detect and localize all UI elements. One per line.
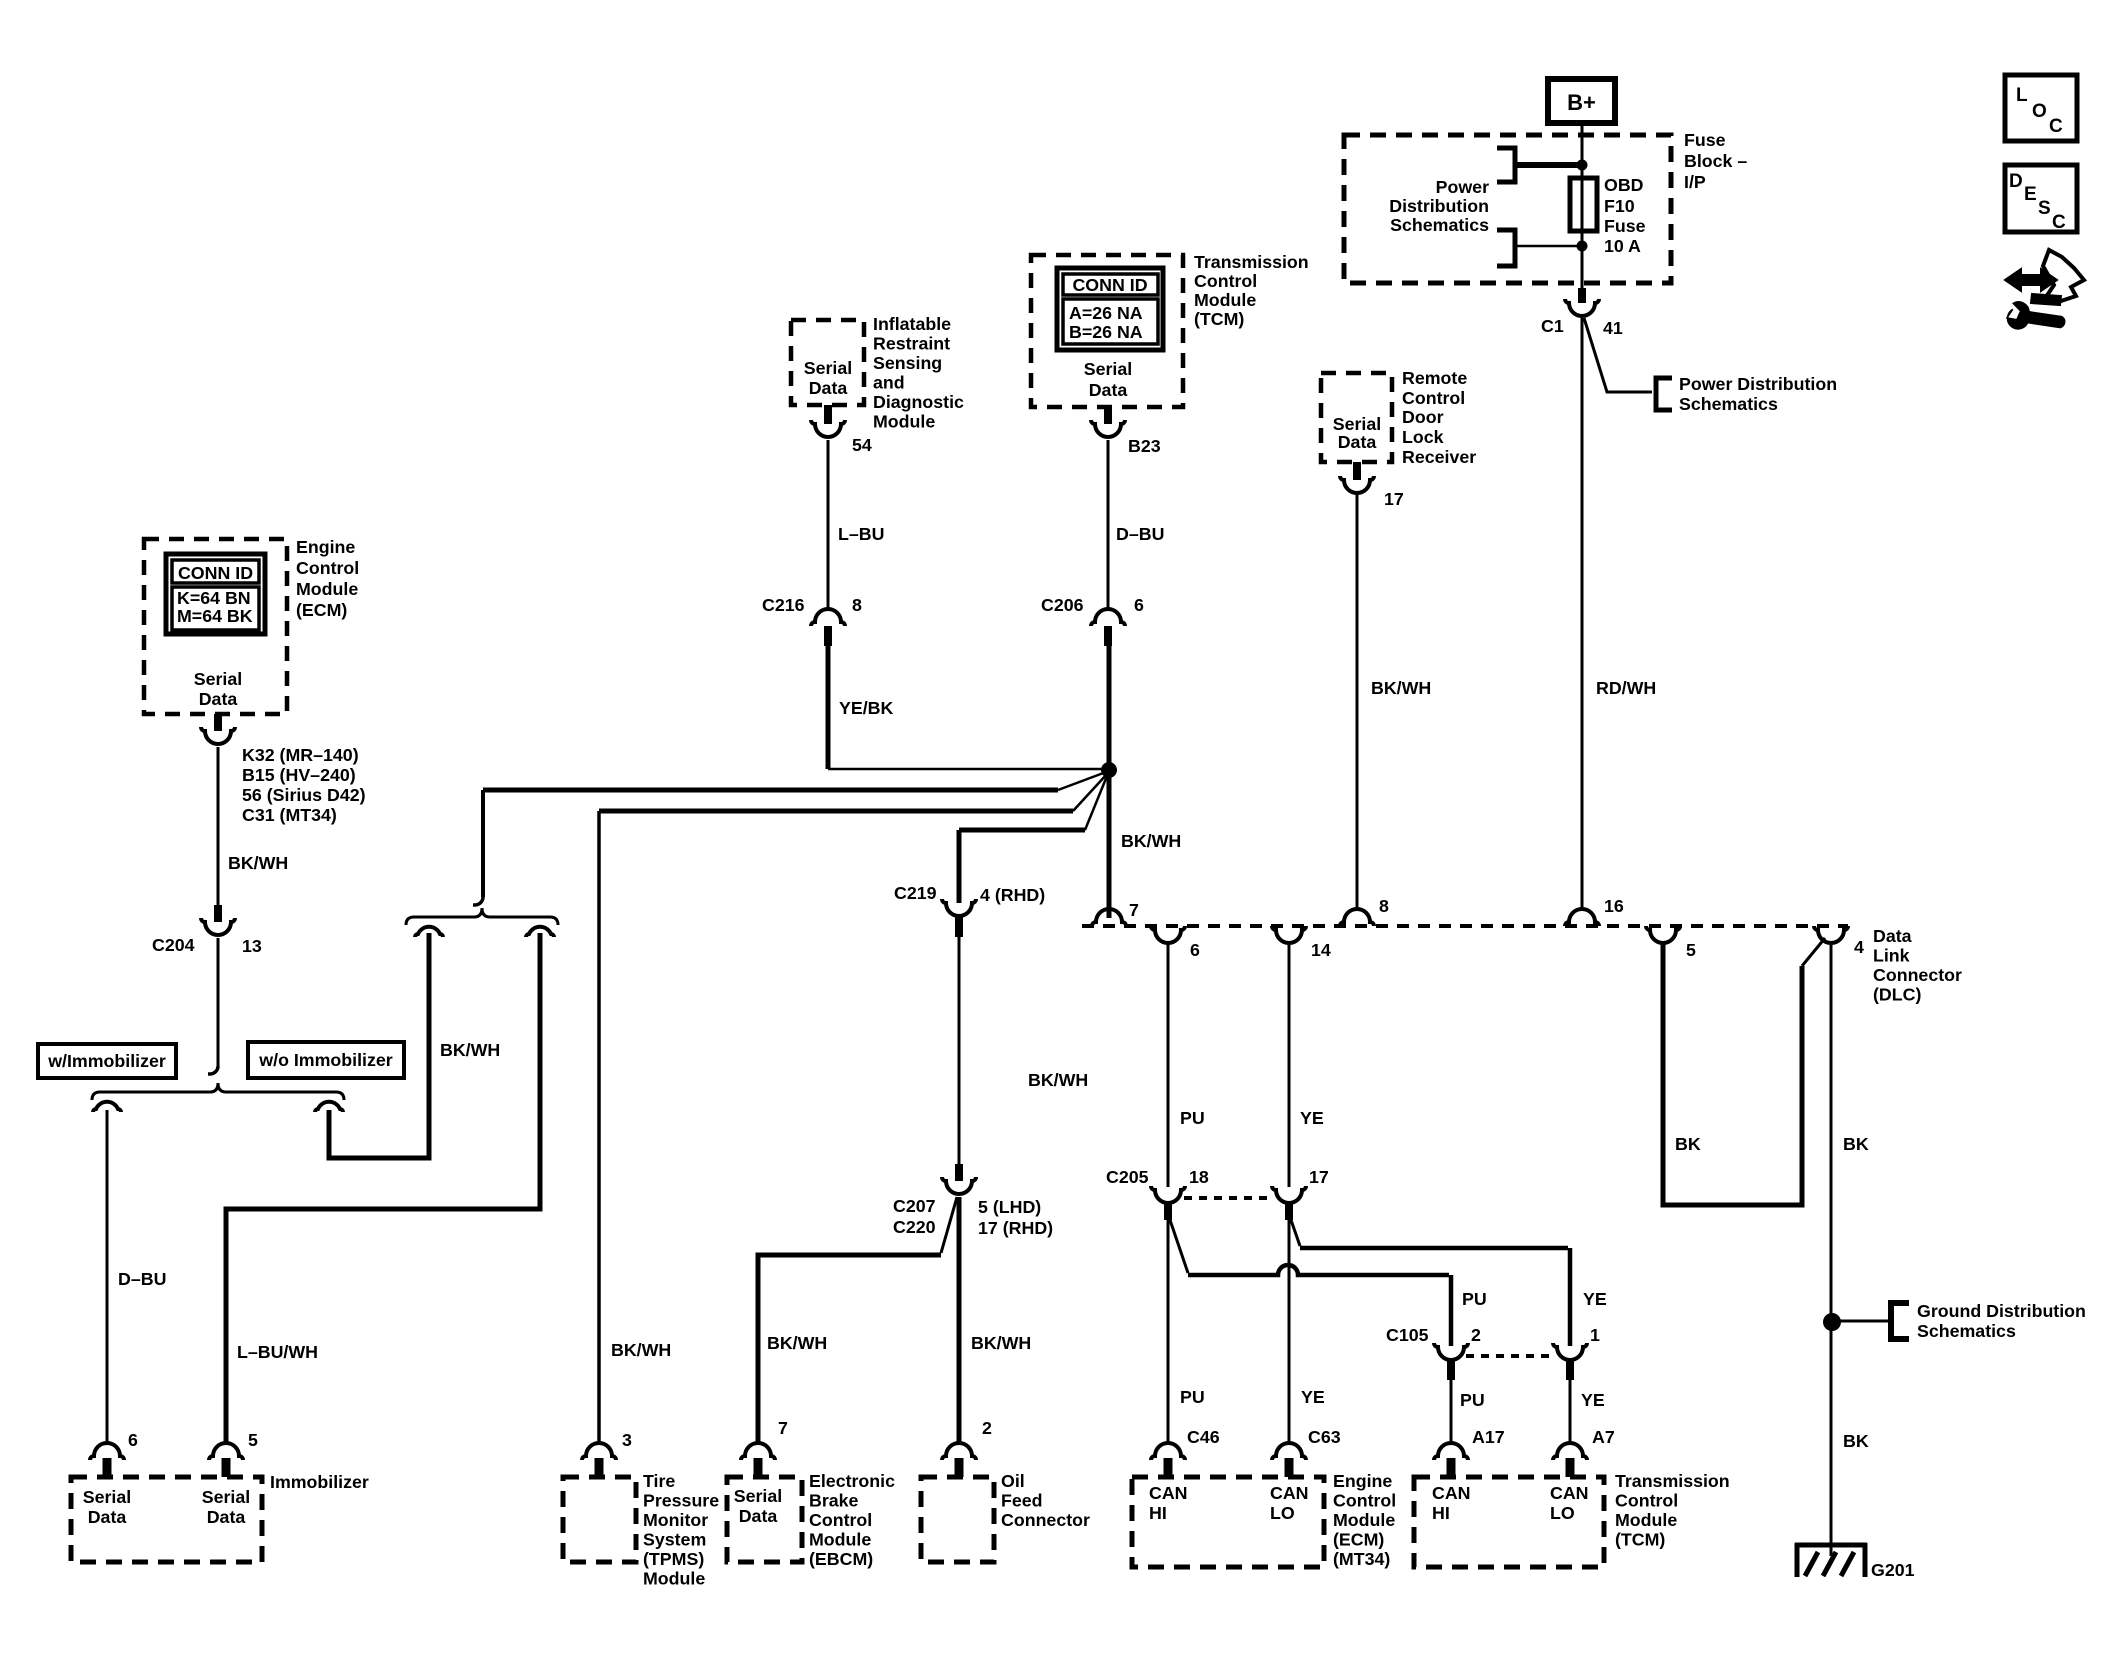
svg-text:Module: Module xyxy=(1333,1510,1395,1530)
wire: branch to C219 xyxy=(959,828,1085,833)
wire: ECM serial data BK/WH xyxy=(217,747,220,905)
svg-text:Distribution: Distribution xyxy=(1389,196,1489,216)
svg-text:Data: Data xyxy=(809,378,848,398)
wire: BK/WH down to C207 xyxy=(958,937,961,1164)
svg-text:(TPMS): (TPMS) xyxy=(643,1549,704,1569)
svg-text:Data: Data xyxy=(88,1507,127,1527)
svg-text:BK: BK xyxy=(1675,1134,1701,1154)
svg-text:BK/WH: BK/WH xyxy=(1371,678,1431,698)
svg-text:Connector: Connector xyxy=(1001,1510,1090,1530)
svg-text:10 A: 10 A xyxy=(1604,236,1641,256)
battery feed B+ terminal xyxy=(1548,79,1615,123)
fan wire to branch 4 xyxy=(1085,776,1107,830)
svg-text:Transmission: Transmission xyxy=(1615,1471,1730,1491)
connector C205 pin 18 xyxy=(1151,1186,1185,1203)
svg-text:PU: PU xyxy=(1460,1390,1485,1410)
TCM CAN pin A7 xyxy=(1553,1443,1587,1460)
LOC legend box xyxy=(2005,75,2077,141)
wire: RD/WH to DLC pin 16 xyxy=(1581,318,1584,911)
TPMS pin 3 xyxy=(582,1443,616,1460)
wire: BK/WH to oil feed connector pin 2 xyxy=(957,1197,962,1444)
svg-text:C219: C219 xyxy=(894,883,937,903)
wire: BK/WH trunk to DLC pin 7 xyxy=(1107,646,1112,918)
svg-text:Transmission: Transmission xyxy=(1194,252,1309,272)
svg-text:Monitor: Monitor xyxy=(643,1510,708,1530)
svg-text:Pressure: Pressure xyxy=(643,1491,719,1511)
svg-text:5: 5 xyxy=(248,1430,258,1450)
fan wire to branch 3 xyxy=(1073,774,1107,811)
wire: YE/BK horizontal xyxy=(828,768,1107,771)
breakout cup right xyxy=(315,1102,343,1112)
wire: YE crossover to C105 pin 1 xyxy=(1291,1220,1300,1246)
wire: fuse output xyxy=(1581,246,1584,288)
svg-text:D–BU: D–BU xyxy=(118,1269,166,1289)
svg-text:Data: Data xyxy=(199,689,238,709)
svg-text:7: 7 xyxy=(1129,900,1139,920)
svg-text:B=26 NA: B=26 NA xyxy=(1069,322,1143,342)
svg-text:Brake: Brake xyxy=(809,1491,859,1511)
svg-text:CAN: CAN xyxy=(1550,1483,1589,1503)
connector C1 pin 41 xyxy=(1578,288,1586,303)
svg-text:LO: LO xyxy=(1550,1503,1575,1523)
svg-text:Fuse: Fuse xyxy=(1604,216,1646,236)
svg-text:B23: B23 xyxy=(1128,436,1161,456)
svg-text:BK/WH: BK/WH xyxy=(971,1333,1031,1353)
svg-text:Module: Module xyxy=(873,412,935,432)
svg-text:L: L xyxy=(2016,85,2028,106)
wire: BK ground drop from DLC pin 4 xyxy=(1830,943,1833,1556)
DLC pin 14 cup xyxy=(1272,926,1306,943)
module box: Engine Control Module (ECM)(MT34), dashed xyxy=(1132,1477,1324,1567)
connector C105 pin 2 xyxy=(1434,1343,1468,1360)
svg-text:(ECM): (ECM) xyxy=(1333,1530,1384,1550)
option box: w/Immobilizer xyxy=(38,1044,176,1078)
connector C105 pin 1 xyxy=(1553,1343,1587,1360)
svg-text:Electronic: Electronic xyxy=(809,1471,895,1491)
svg-text:YE: YE xyxy=(1581,1390,1605,1410)
svg-text:(EBCM): (EBCM) xyxy=(809,1549,873,1569)
svg-text:Serial: Serial xyxy=(83,1487,131,1507)
svg-text:Control: Control xyxy=(1333,1491,1396,1511)
ECM output connector cup xyxy=(201,727,235,744)
wire: L-BU/WH to immobilizer pin 5 xyxy=(226,933,540,1444)
svg-text:2: 2 xyxy=(982,1418,992,1438)
svg-text:16: 16 xyxy=(1604,896,1624,916)
svg-text:BK/WH: BK/WH xyxy=(1121,831,1181,851)
connector C205 pin 17 xyxy=(1272,1186,1306,1203)
svg-text:5: 5 xyxy=(1686,940,1696,960)
svg-text:O: O xyxy=(2032,101,2047,122)
svg-text:13: 13 xyxy=(242,936,262,956)
DLC pin 4 cup xyxy=(1814,926,1848,943)
svg-text:54: 54 xyxy=(852,435,872,455)
svg-text:and: and xyxy=(873,373,905,393)
svg-text:Schematics: Schematics xyxy=(1917,1321,2016,1341)
fuse block dashed box: Fuse Block - I/P xyxy=(1344,135,1671,283)
svg-text:Module: Module xyxy=(643,1569,705,1589)
junction dot upper xyxy=(1577,160,1588,171)
svg-text:Remote: Remote xyxy=(1402,368,1467,388)
ECM CONN ID table xyxy=(166,554,265,634)
svg-text:RD/WH: RD/WH xyxy=(1596,678,1656,698)
wire: branch to splice brace 2 xyxy=(483,788,1058,793)
svg-text:6: 6 xyxy=(1190,940,1200,960)
svg-text:E: E xyxy=(2024,184,2037,205)
module box: Oil Feed Connector, dashed xyxy=(921,1477,994,1562)
svg-text:Sensing: Sensing xyxy=(873,353,942,373)
DLC pin 6 cup xyxy=(1151,926,1185,943)
DLC pin 7 dome xyxy=(1092,909,1126,926)
wire: branch to TPMS BK/WH xyxy=(599,809,1073,814)
wire: BK/WH branch to EBCM pin 7 xyxy=(941,1197,957,1253)
svg-text:(ECM): (ECM) xyxy=(296,600,347,620)
svg-text:Power: Power xyxy=(1436,177,1489,197)
svg-text:Block –: Block – xyxy=(1684,151,1747,171)
svg-text:6: 6 xyxy=(1134,595,1144,615)
connector C204 pin 13 xyxy=(214,905,222,922)
svg-text:M=64 BK: M=64 BK xyxy=(177,606,253,626)
svg-text:PU: PU xyxy=(1180,1108,1205,1128)
svg-text:B+: B+ xyxy=(1567,90,1596,115)
wire: PU to TCM CAN HI A17 xyxy=(1450,1380,1453,1444)
svg-text:w/o Immobilizer: w/o Immobilizer xyxy=(258,1050,392,1070)
svg-text:Data: Data xyxy=(1089,380,1128,400)
wire: B+ to fuse xyxy=(1581,123,1584,178)
svg-text:Control: Control xyxy=(809,1510,872,1530)
svg-text:Fuse: Fuse xyxy=(1684,130,1726,150)
svg-text:Feed: Feed xyxy=(1001,1491,1043,1511)
svg-text:(DLC): (DLC) xyxy=(1873,985,1921,1005)
EBCM pin 7 xyxy=(741,1443,775,1460)
svg-text:56 (Sirius D42): 56 (Sirius D42) xyxy=(242,785,366,805)
module box: EBCM, dashed xyxy=(727,1477,802,1562)
oil feed pin 2 xyxy=(942,1443,976,1460)
svg-text:Serial: Serial xyxy=(1084,359,1132,379)
svg-text:18: 18 xyxy=(1189,1167,1209,1187)
svg-text:Data: Data xyxy=(1338,432,1377,452)
module box: TPMS Module, dashed xyxy=(563,1477,636,1562)
svg-text:Connector: Connector xyxy=(1873,965,1962,985)
svg-text:S: S xyxy=(2038,198,2051,219)
svg-text:8: 8 xyxy=(852,595,862,615)
swap-wrench icon xyxy=(2005,269,2057,291)
svg-text:C205: C205 xyxy=(1106,1167,1149,1187)
svg-text:w/Immobilizer: w/Immobilizer xyxy=(47,1051,166,1071)
breakout cup left xyxy=(93,1102,121,1112)
svg-text:Lock: Lock xyxy=(1402,427,1444,447)
svg-text:YE/BK: YE/BK xyxy=(839,698,894,718)
svg-text:Control: Control xyxy=(1194,271,1257,291)
svg-text:Schematics: Schematics xyxy=(1390,215,1489,235)
svg-text:B15 (HV–240): B15 (HV–240) xyxy=(242,765,356,785)
svg-text:Tire: Tire xyxy=(643,1471,675,1491)
wire: tap to power distribution schematics xyxy=(1584,318,1652,392)
wire: YE to TCM CAN LO A7 xyxy=(1569,1380,1572,1444)
svg-text:C: C xyxy=(2049,116,2063,137)
svg-text:CAN: CAN xyxy=(1149,1483,1188,1503)
svg-text:4: 4 xyxy=(1854,937,1864,957)
TCM CAN pin A17 xyxy=(1434,1443,1468,1460)
svg-text:Module: Module xyxy=(1194,290,1256,310)
connector pin 17 xyxy=(1353,462,1361,480)
svg-text:Module: Module xyxy=(296,579,358,599)
svg-text:BK: BK xyxy=(1843,1134,1869,1154)
wire: DLC internal bus, dashed xyxy=(1082,924,1848,928)
svg-text:7: 7 xyxy=(778,1418,788,1438)
reference bracket: power distribution xyxy=(1656,378,1672,410)
svg-text:Serial: Serial xyxy=(804,358,852,378)
svg-text:Door: Door xyxy=(1402,407,1444,427)
splice brace 2 xyxy=(481,790,485,897)
DESC legend box xyxy=(2005,165,2077,232)
svg-text:(TCM): (TCM) xyxy=(1615,1530,1665,1550)
wire: YE from C205 pin 17 to ECM CAN LO xyxy=(1288,1220,1291,1444)
svg-text:HI: HI xyxy=(1432,1503,1450,1523)
svg-text:Schematics: Schematics xyxy=(1679,394,1778,414)
svg-text:Module: Module xyxy=(809,1530,871,1550)
wire: PU from C205 pin 18 to ECM CAN HI xyxy=(1167,1220,1170,1444)
svg-text:HI: HI xyxy=(1149,1503,1167,1523)
splice brace 1 xyxy=(92,1083,344,1100)
svg-text:Module: Module xyxy=(1615,1510,1677,1530)
svg-text:C31 (MT34): C31 (MT34) xyxy=(242,805,337,825)
svg-text:41: 41 xyxy=(1603,318,1623,338)
svg-text:Control: Control xyxy=(296,558,359,578)
svg-text:17: 17 xyxy=(1309,1167,1329,1187)
wire: PU from DLC pin 6 to C205 pin 18 xyxy=(1167,943,1170,1187)
svg-text:Data: Data xyxy=(1873,926,1912,946)
svg-text:Serial: Serial xyxy=(734,1486,782,1506)
module box: Inflatable Restraint Sensing and Diagnostic Module, dashed xyxy=(791,320,864,405)
svg-text:Control: Control xyxy=(1402,388,1465,408)
svg-text:L–BU: L–BU xyxy=(838,524,884,544)
svg-text:PU: PU xyxy=(1462,1289,1487,1309)
junction dot ground tap xyxy=(1823,1313,1841,1331)
svg-text:C: C xyxy=(2052,212,2066,233)
svg-text:A17: A17 xyxy=(1472,1427,1505,1447)
module box: Transmission Control Module (TCM), dashed xyxy=(1414,1477,1604,1567)
svg-text:Control: Control xyxy=(1615,1491,1678,1511)
ECM CAN pin C46 xyxy=(1151,1443,1185,1460)
svg-text:C46: C46 xyxy=(1187,1427,1220,1447)
wire: L-BU xyxy=(827,440,830,611)
option box: w/o Immobilizer xyxy=(248,1042,404,1078)
svg-text:LO: LO xyxy=(1270,1503,1295,1523)
svg-text:PU: PU xyxy=(1180,1387,1205,1407)
svg-text:Serial: Serial xyxy=(194,669,242,689)
svg-text:BK/WH: BK/WH xyxy=(611,1340,671,1360)
svg-text:D–BU: D–BU xyxy=(1116,524,1164,544)
svg-text:Ground Distribution: Ground Distribution xyxy=(1917,1301,2086,1321)
breakout cup right 2 xyxy=(526,927,554,937)
svg-text:1: 1 xyxy=(1590,1325,1600,1345)
connector pin B23 xyxy=(1104,407,1112,424)
svg-text:Serial: Serial xyxy=(202,1487,250,1507)
svg-text:BK/WH: BK/WH xyxy=(440,1040,500,1060)
svg-text:Restraint: Restraint xyxy=(873,334,950,354)
svg-text:C216: C216 xyxy=(762,595,805,615)
module box: Transmission Control Module (TCM), dashed xyxy=(1031,255,1183,407)
svg-text:BK/WH: BK/WH xyxy=(767,1333,827,1353)
DLC pin 5 cup xyxy=(1646,926,1680,943)
svg-text:BK/WH: BK/WH xyxy=(1028,1070,1088,1090)
wire: BK loop DLC pin 5 to pin 4 xyxy=(1663,943,1802,1205)
svg-text:YE: YE xyxy=(1583,1289,1607,1309)
svg-text:(MT34): (MT34) xyxy=(1333,1549,1390,1569)
svg-text:5 (LHD): 5 (LHD) xyxy=(978,1197,1041,1217)
terminal symbol lower xyxy=(1497,230,1515,266)
svg-text:3: 3 xyxy=(622,1430,632,1450)
wire: YE/BK to junction xyxy=(826,646,831,769)
junction dot lower xyxy=(1577,241,1588,252)
connector pin 54 xyxy=(824,405,832,424)
svg-text:G201: G201 xyxy=(1871,1560,1915,1580)
svg-text:CONN ID: CONN ID xyxy=(178,563,253,583)
terminal symbol upper xyxy=(1497,148,1515,182)
svg-text:YE: YE xyxy=(1300,1108,1324,1128)
svg-text:CAN: CAN xyxy=(1432,1483,1471,1503)
svg-text:8: 8 xyxy=(1379,896,1389,916)
svg-text:C207: C207 xyxy=(893,1196,936,1216)
svg-text:A7: A7 xyxy=(1592,1427,1615,1447)
svg-text:K=64 BN: K=64 BN xyxy=(177,588,251,608)
svg-text:System: System xyxy=(643,1530,706,1550)
svg-text:Oil: Oil xyxy=(1001,1471,1025,1491)
connector C219 pin 4 (RHD) xyxy=(942,899,976,916)
svg-text:Diagnostic: Diagnostic xyxy=(873,392,964,412)
svg-text:A=26 NA: A=26 NA xyxy=(1069,303,1143,323)
C105 dashed link xyxy=(1466,1354,1554,1358)
svg-text:4 (RHD): 4 (RHD) xyxy=(980,885,1045,905)
svg-text:I/P: I/P xyxy=(1684,172,1706,192)
svg-text:D: D xyxy=(2009,171,2023,192)
svg-text:6: 6 xyxy=(128,1430,138,1450)
ECM CAN pin C63 xyxy=(1272,1443,1306,1460)
DLC pin 8 dome xyxy=(1340,909,1374,926)
svg-text:Engine: Engine xyxy=(1333,1471,1392,1491)
fan wire to branch 2 xyxy=(1058,772,1106,790)
module box: Immobilizer, dashed xyxy=(71,1477,262,1562)
svg-text:2: 2 xyxy=(1471,1325,1481,1345)
svg-text:Data: Data xyxy=(207,1507,246,1527)
svg-text:L–BU/WH: L–BU/WH xyxy=(237,1342,318,1362)
svg-text:C63: C63 xyxy=(1308,1427,1341,1447)
fuse OBD F10 10A xyxy=(1570,178,1597,231)
svg-text:BK/WH: BK/WH xyxy=(228,853,288,873)
svg-text:Receiver: Receiver xyxy=(1402,447,1476,467)
wire: YE from DLC pin 14 to C205 pin 17 xyxy=(1288,943,1291,1187)
svg-text:(TCM): (TCM) xyxy=(1194,309,1244,329)
svg-text:CONN ID: CONN ID xyxy=(1072,275,1147,295)
connector C207/C220 xyxy=(955,1164,963,1181)
svg-text:C105: C105 xyxy=(1386,1325,1429,1345)
svg-text:C220: C220 xyxy=(893,1217,936,1237)
svg-text:C204: C204 xyxy=(152,935,195,955)
immobilizer pin 6 xyxy=(90,1443,124,1460)
wire: PU crossover to C105 pin 2 xyxy=(1170,1220,1188,1273)
svg-text:BK: BK xyxy=(1843,1431,1869,1451)
ECM output pin stub xyxy=(214,714,222,731)
svg-text:17: 17 xyxy=(1384,489,1404,509)
svg-text:Immobilizer: Immobilizer xyxy=(270,1472,369,1492)
svg-text:Inflatable: Inflatable xyxy=(873,314,951,334)
svg-text:K32 (MR–140): K32 (MR–140) xyxy=(242,745,359,765)
svg-text:YE: YE xyxy=(1301,1387,1325,1407)
svg-text:C1: C1 xyxy=(1541,316,1564,336)
TCM CONN ID table xyxy=(1057,268,1163,350)
junction node splice xyxy=(1101,762,1117,778)
svg-text:F10: F10 xyxy=(1604,196,1635,216)
svg-text:Power Distribution: Power Distribution xyxy=(1679,374,1837,394)
svg-text:Data: Data xyxy=(739,1506,778,1526)
wire: D-BU xyxy=(1107,440,1110,611)
module box: Remote Control Door Lock Receiver, dashed xyxy=(1321,373,1392,462)
connector C206 pin 6 xyxy=(1091,609,1125,626)
svg-text:17 (RHD): 17 (RHD) xyxy=(978,1218,1053,1238)
C205 dashed link xyxy=(1184,1196,1273,1200)
wire: C204 to immobilizer split xyxy=(217,938,220,1066)
connector C216 pin 8 xyxy=(811,609,845,626)
svg-text:Serial: Serial xyxy=(1333,414,1381,434)
breakout cup left 2 xyxy=(415,927,443,937)
svg-text:CAN: CAN xyxy=(1270,1483,1309,1503)
svg-text:14: 14 xyxy=(1311,940,1331,960)
reference bracket: ground distribution xyxy=(1891,1303,1909,1339)
wire: D-BU to immobilizer pin 6 xyxy=(106,1110,109,1444)
wire: BK/WH to DLC pin 8 xyxy=(1356,494,1359,911)
module box: Engine Control Module (ECM), dashed xyxy=(144,539,287,714)
wire: right branch to second splice xyxy=(329,933,429,1158)
DLC pin 16 dome xyxy=(1565,909,1599,926)
immobilizer pin 5 xyxy=(209,1443,243,1460)
ground symbol G201 xyxy=(1795,1543,1867,1548)
svg-text:Engine: Engine xyxy=(296,537,355,557)
svg-text:Link: Link xyxy=(1873,946,1910,966)
svg-text:OBD: OBD xyxy=(1604,175,1644,195)
svg-text:C206: C206 xyxy=(1041,595,1084,615)
